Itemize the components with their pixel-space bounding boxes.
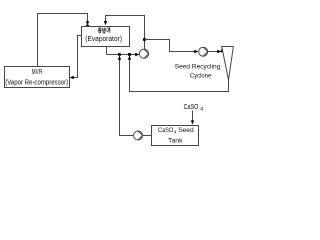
pump P3 — [134, 131, 143, 140]
svg-text:CaSO: CaSO — [184, 104, 199, 111]
svg-text:(Evaporator): (Evaporator) — [85, 36, 122, 43]
node header junction dot A — [118, 53, 121, 56]
pump P2 — [199, 47, 208, 56]
svg-text:Seed: Seed — [178, 127, 194, 134]
svg-text:(Vapor Re-compressor): (Vapor Re-compressor) — [5, 80, 68, 87]
label 증발기 drawn as vector strokes — [98, 27, 110, 33]
op box MVR (Vapor Re-compressor) — [5, 67, 70, 88]
op box Evaporator — [82, 27, 130, 47]
node header junction dot B — [128, 53, 131, 56]
wire branch junction to pump P2 — [145, 40, 195, 52]
svg-text:Tank: Tank — [168, 138, 183, 145]
node junction dot on evaporator top — [86, 25, 89, 28]
wire pump P2 to cyclone inlet — [208, 51, 218, 53]
wire cyclone underflow return riser with up arrow — [130, 55, 229, 92]
node cyclone inlet dot — [221, 49, 224, 52]
wire pump P1 discharge to evaporator top — [106, 16, 145, 50]
wire evaporator bottom drop to suction header — [106, 47, 108, 55]
svg-text:4: 4 — [200, 107, 203, 113]
wire CaSO4 make-up arrow into tank — [192, 111, 194, 122]
svg-text:Cyclone: Cyclone — [190, 73, 211, 80]
svg-text:Seed Recycling: Seed Recycling — [175, 64, 221, 71]
wire evaporator bottom to MVR inlet — [74, 36, 82, 78]
svg-text:MVR: MVR — [32, 67, 43, 76]
op box CaSO4 Seed Tank — [152, 126, 199, 146]
발 — [103, 28, 106, 34]
증 — [98, 28, 102, 30]
wire tank line riser with up arrow — [120, 55, 134, 136]
wire MVR top to evaporator top — [38, 14, 88, 67]
wire suction header into pump P1 — [107, 54, 136, 56]
node junction dot on riser — [143, 38, 146, 41]
기 — [107, 27, 110, 33]
cyclone Seed Recycling Cyclone — [222, 47, 234, 81]
pump P1 — [139, 49, 148, 58]
svg-text:CaSO: CaSO — [158, 127, 173, 134]
wire pump P3 to tank — [143, 135, 152, 137]
svg-text:4: 4 — [174, 130, 177, 136]
